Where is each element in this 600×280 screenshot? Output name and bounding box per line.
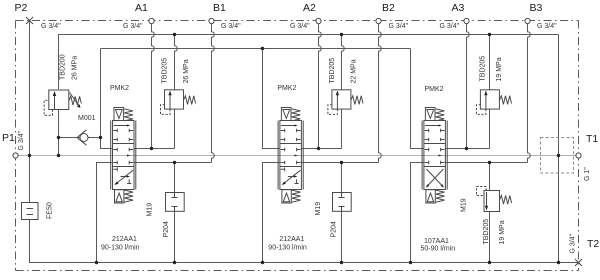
svg-text:B3: B3: [530, 2, 543, 14]
junction on pilot rail y=48.5: [261, 47, 264, 50]
junctions on tank rail y=34.5: [173, 33, 491, 36]
svg-text:G 3/4": G 3/4": [18, 130, 25, 150]
wire B3 vertical with hops: [528, 24, 531, 163]
svg-text:107AA1: 107AA1: [424, 238, 449, 245]
svg-text:A1: A1: [135, 2, 148, 14]
svg-text:G 3/4": G 3/4": [537, 23, 557, 30]
svg-text:B1: B1: [213, 2, 226, 14]
svg-text:A2: A2: [303, 2, 316, 14]
svg-text:90-130 l/min: 90-130 l/min: [101, 245, 140, 252]
junctions on bottom tank bus: [95, 261, 560, 264]
bus wire pilot rail y=48.5: [101, 48, 411, 50]
wire T return S1: [97, 163, 113, 263]
wire P rail P1 to T1 y=155.5: [16, 155, 579, 157]
wire A3 vertical with hop: [467, 24, 470, 149]
svg-text:19 MPa: 19 MPa: [499, 220, 506, 244]
wire P2 drop leg: [29, 21, 31, 203]
svg-text:19 MPa: 19 MPa: [496, 57, 503, 81]
svg-text:TBD200: TBD200: [60, 54, 67, 80]
svg-text:P2: P2: [15, 2, 28, 14]
T1 dashed cavity box: [541, 138, 574, 174]
port B2: [376, 18, 381, 23]
wire pilot drop S1: [101, 49, 113, 149]
junctions on P rail y=155.5: [28, 154, 560, 157]
bottom position interior: [113, 167, 117, 171]
wire P204 drop S2: [341, 163, 343, 263]
svg-text:G 1": G 1": [584, 167, 591, 181]
port T1: [576, 153, 581, 158]
relief valve S2 (TBD205 22 MPa): [328, 90, 363, 115]
svg-text:26 MPa: 26 MPa: [72, 56, 79, 80]
wire A-link S3: [445, 148, 489, 150]
check valve M001: [77, 130, 88, 145]
svg-text:T2: T2: [587, 238, 599, 250]
svg-text:G 3/4": G 3/4": [221, 23, 241, 30]
port P1: [13, 153, 18, 158]
svg-text:FE50: FE50: [47, 202, 54, 219]
svg-text:M19: M19: [315, 202, 322, 216]
wire B-link S1: [134, 162, 212, 164]
plug X T2: [575, 259, 582, 266]
svg-text:M001: M001: [78, 115, 96, 122]
bus wire tank rail y=35: [59, 35, 559, 90]
svg-text:212AA1: 212AA1: [112, 236, 137, 243]
plug X P2: [26, 17, 33, 24]
svg-text:T1: T1: [586, 133, 598, 145]
svg-text:22 MPa: 22 MPa: [351, 59, 358, 83]
svg-text:M19: M19: [461, 198, 468, 212]
top position interior: [114, 125, 129, 127]
junctions on A-links: [150, 147, 468, 150]
relief valve S3 top (TBD205 19 MPa): [476, 90, 511, 115]
wire P204 drop S1: [174, 163, 176, 263]
wire A2 vertical with hops: [319, 24, 322, 149]
svg-text:G 3/4": G 3/4": [570, 233, 577, 253]
wire port relief drop S3: [489, 163, 491, 263]
svg-text:PMK2: PMK2: [110, 85, 129, 92]
port A2: [316, 18, 321, 23]
svg-text:P1: P1: [2, 132, 15, 144]
svg-text:212AA1: 212AA1: [279, 236, 304, 243]
wire pilot drop S3: [411, 49, 424, 149]
svg-text:50-90 l/min: 50-90 l/min: [421, 246, 456, 253]
port B1: [209, 18, 214, 23]
wire bottom tank bus y=262: [30, 220, 579, 263]
wire TBD200 stack: relief bottom to rail: [58, 110, 60, 156]
svg-text:TBD205: TBD205: [483, 219, 490, 245]
wire pilot drop S2: [263, 49, 280, 149]
wire B1 vertical with hops: [211, 24, 214, 163]
wire T return S2: [263, 163, 280, 263]
svg-text:G 3/4": G 3/4": [389, 23, 409, 30]
wire T1 heavy vertical: [558, 35, 560, 263]
junctions on check valve line: [57, 136, 102, 139]
wire A-link S1: [134, 148, 175, 150]
junctions on B-links: [173, 161, 491, 164]
port A1: [149, 18, 154, 23]
svg-text:G 3/4": G 3/4": [123, 23, 143, 30]
svg-text:G 3/4": G 3/4": [290, 23, 310, 30]
svg-text:P204: P204: [330, 221, 337, 237]
filter FE50: [22, 203, 39, 220]
wire B2 vertical with hops: [379, 24, 382, 163]
svg-text:TBD205: TBD205: [329, 58, 336, 84]
wire check valve line: [59, 137, 101, 139]
directional valve S3 (float spool): [422, 108, 447, 204]
wire A1 vertical with hops: [152, 24, 155, 149]
wire T return S3: [411, 163, 424, 263]
svg-text:TBD205: TBD205: [480, 56, 487, 82]
svg-text:B2: B2: [382, 2, 395, 14]
relief valve TBD200 (main): [44, 90, 81, 115]
wire A-link S2: [301, 148, 341, 150]
P204 box S1: [166, 193, 185, 212]
svg-text:M19: M19: [147, 203, 154, 217]
wire relief stack S1 (bus1 to A-link): [175, 35, 178, 149]
svg-text:90-130 l/min: 90-130 l/min: [268, 245, 307, 252]
relief valve S3 bottom (TBD205 19 MPa port relief): [477, 187, 512, 212]
wire B-link S2: [301, 162, 378, 164]
relief valve S1 (TBD205 26 MPa): [161, 90, 196, 115]
wire relief stack S3: [489, 35, 491, 149]
svg-text:P204: P204: [163, 221, 170, 237]
svg-text:G 3/4": G 3/4": [41, 23, 61, 30]
svg-text:PMK2: PMK2: [277, 85, 296, 92]
wire B-link S3: [445, 162, 527, 164]
svg-text:PMK2: PMK2: [425, 86, 444, 93]
svg-text:26 MPa: 26 MPa: [183, 59, 190, 83]
port A3: [464, 18, 469, 23]
svg-text:A3: A3: [452, 2, 465, 14]
directional valve S2: [278, 108, 303, 204]
directional valve S1: [111, 108, 136, 204]
wire relief stack S2: [342, 35, 345, 149]
P204 box S2: [333, 193, 352, 212]
middle position interior: [113, 148, 133, 152]
port B3: [525, 18, 530, 23]
svg-text:TBD205: TBD205: [162, 58, 169, 84]
svg-text:G 3/4": G 3/4": [440, 23, 460, 30]
